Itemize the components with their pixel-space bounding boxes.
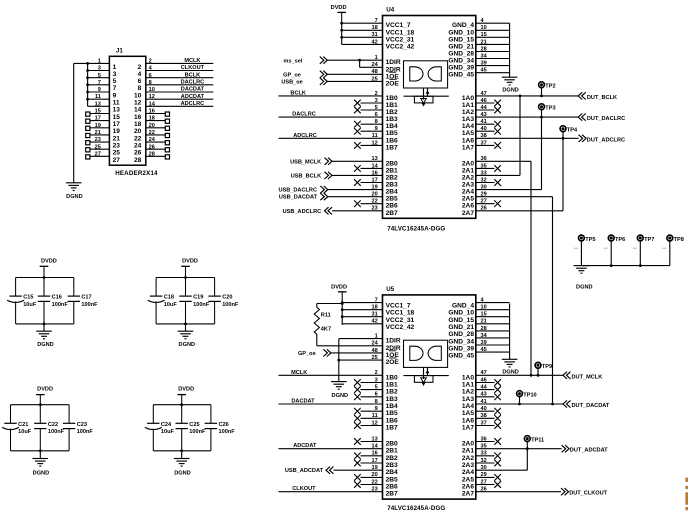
wire U4 2A4 branch up to DUT_DACLRC: [476, 110, 543, 191]
svg-text:27: 27: [113, 157, 121, 164]
no-connect U5 2A2 pin 33: [476, 451, 501, 459]
svg-text:37: 37: [481, 420, 487, 426]
svg-text:2A4: 2A4: [462, 469, 474, 476]
svg-text:GND_10: GND_10: [448, 29, 474, 36]
refdes C21: [18, 422, 28, 428]
value 4K7 (R11): [321, 327, 331, 333]
no-connect U4 1A4 pin 41: [476, 119, 501, 127]
no-connect U4 1A1 pin 46: [476, 98, 501, 106]
svg-text:7: 7: [375, 298, 378, 304]
J1 inside pin numbers 1-28: [113, 64, 142, 164]
net label ADCLRC: [181, 101, 205, 107]
svg-text:19: 19: [371, 185, 377, 191]
power DVDD at C15 bank: [40, 266, 49, 277]
wire DUT_DACLRC from U4 1A3: [476, 112, 578, 118]
svg-text:12: 12: [371, 140, 377, 146]
svg-text:10: 10: [481, 305, 487, 311]
svg-text:DUT_DACDAT: DUT_DACDAT: [572, 403, 610, 409]
svg-text:1: 1: [375, 55, 378, 61]
testpoint TP2: [539, 82, 545, 98]
wire gnd stem C24 bank: [181, 451, 183, 459]
svg-text:CLKOUT: CLKOUT: [292, 486, 316, 492]
svg-text:C17: C17: [81, 295, 91, 301]
svg-text:9: 9: [375, 406, 378, 412]
svg-text:1B1: 1B1: [386, 102, 398, 109]
wire bottom rail C18 bank: [156, 323, 215, 325]
wire USB_BCLK to U4 2B2: [332, 170, 383, 176]
svg-text:42: 42: [371, 39, 377, 45]
svg-text:1B0: 1B0: [386, 374, 398, 381]
svg-text:100nF: 100nF: [189, 429, 206, 435]
svg-text:1DIR: 1DIR: [386, 338, 401, 345]
no-connect U5 1A2 pin 44: [476, 385, 501, 393]
svg-text:34: 34: [481, 53, 488, 59]
wire gnd stem C18 bank: [185, 324, 187, 331]
no-connect U4 1A5 pin 40: [476, 126, 501, 134]
svg-text:1A1: 1A1: [462, 382, 474, 389]
svg-text:C20: C20: [222, 295, 232, 301]
wire U4 2A5 USB DACDAT branch down: [476, 192, 553, 404]
svg-text:2A4: 2A4: [462, 189, 474, 196]
ground DGND (C15 bank): [36, 331, 52, 339]
svg-text:2A2: 2A2: [462, 174, 474, 181]
svg-text:1B4: 1B4: [386, 123, 398, 130]
net label DACDAT (U5): [291, 399, 315, 405]
label DGND (TP rail): [576, 285, 592, 291]
svg-text:21: 21: [481, 39, 487, 45]
label TP11: [531, 438, 544, 444]
no-connect U5 2B6 pin 22: [354, 479, 382, 487]
svg-text:VCC2_42: VCC2_42: [386, 43, 415, 50]
IC U4 body: [383, 16, 476, 219]
svg-text:8: 8: [375, 399, 378, 405]
wires U4 VCC pins to DVDD rail: [340, 18, 382, 45]
svg-text:38: 38: [481, 133, 487, 139]
svg-text:100nF: 100nF: [77, 429, 94, 435]
svg-text:1A5: 1A5: [462, 410, 474, 417]
svg-text:14: 14: [371, 163, 378, 169]
svg-text:43: 43: [481, 392, 487, 398]
svg-text:TP7: TP7: [644, 237, 654, 243]
svg-text:1A6: 1A6: [462, 417, 474, 424]
svg-text:VCC1_18: VCC1_18: [386, 29, 415, 36]
svg-text:DACDAT: DACDAT: [291, 399, 315, 405]
svg-text:2A7: 2A7: [462, 491, 474, 498]
svg-text:32: 32: [481, 177, 487, 183]
wire GP_oe to U4 1OE: [327, 69, 382, 75]
svg-text:74LVC16245A-DGG: 74LVC16245A-DGG: [387, 226, 445, 233]
svg-text:2OE: 2OE: [386, 80, 400, 87]
ground DGND (C24 bank): [174, 459, 190, 467]
net label CLKOUT (U5): [292, 486, 316, 492]
svg-text:DGND: DGND: [33, 470, 49, 476]
svg-text:2A5: 2A5: [462, 196, 474, 203]
svg-text:TP10: TP10: [523, 393, 536, 399]
svg-text:16: 16: [371, 170, 377, 176]
label DGND at J1: [66, 194, 82, 200]
no-connect U5 1A3 pin 43: [476, 392, 501, 400]
off-page arrow USB_DACDAT: [320, 193, 328, 200]
svg-text:74LVC16245A-DGG: 74LVC16245A-DGG: [387, 505, 445, 512]
svg-text:DUT_CLKOUT: DUT_CLKOUT: [569, 491, 607, 497]
refdes C18: [164, 295, 174, 301]
net label DUT_CLKOUT: [569, 491, 607, 497]
svg-text:GND_21: GND_21: [448, 43, 474, 50]
no-connect U5 1B1 pin 3: [354, 377, 382, 385]
refdes C24: [161, 422, 172, 428]
no-connect U5 1A5 pin 40: [476, 406, 501, 414]
wire U4 2A2 branch up to DUT_BCLK: [476, 95, 522, 177]
svg-text:MCLK: MCLK: [291, 370, 307, 376]
svg-text:13: 13: [371, 156, 377, 162]
svg-text:1A3: 1A3: [462, 116, 474, 123]
J1 right pin numbers: [149, 59, 156, 158]
svg-text:28: 28: [134, 157, 142, 164]
no-connect U5 1A1 pin 46: [476, 377, 501, 385]
svg-text:DACLRC: DACLRC: [181, 79, 205, 85]
svg-text:24: 24: [371, 341, 378, 347]
off-page arrow DUT_CLKOUT: [561, 488, 569, 495]
svg-text:10uF: 10uF: [161, 429, 175, 435]
svg-text:3: 3: [375, 377, 378, 383]
svg-text:1B5: 1B5: [386, 130, 398, 137]
U4 pin names: [386, 22, 475, 217]
no-connect U4 1A7 pin 37: [476, 140, 501, 148]
wire J1 net DACLRC: [146, 84, 214, 86]
value 100nF (C16): [52, 302, 69, 308]
value 74LVC16245A-DGG (U5): [387, 505, 445, 512]
svg-text:32: 32: [481, 458, 487, 464]
net label DACLRC: [181, 79, 205, 85]
svg-text:USB_BCLK: USB_BCLK: [291, 173, 321, 179]
svg-text:20: 20: [134, 128, 142, 135]
svg-text:C15: C15: [23, 295, 33, 301]
no-connect U5 2A3 pin 32: [476, 458, 501, 466]
svg-text:22: 22: [371, 479, 377, 485]
svg-text:2A2: 2A2: [462, 455, 474, 462]
svg-text:GND_10: GND_10: [448, 310, 474, 317]
capacitor C24: [145, 405, 162, 451]
wire net DACDAT to U5 1B4: [279, 399, 383, 405]
svg-text:28: 28: [481, 46, 487, 52]
svg-text:15: 15: [481, 32, 487, 38]
svg-text:GP_oe: GP_oe: [298, 351, 316, 357]
svg-text:2: 2: [138, 64, 142, 71]
wire TP5-TP8 ground rail: [581, 264, 669, 267]
testpoint TP11: [524, 436, 530, 450]
svg-text:14: 14: [371, 444, 378, 450]
off-page arrow DUT_BCLK: [578, 92, 586, 99]
svg-text:DGND: DGND: [502, 87, 518, 93]
refdes C26: [219, 422, 229, 428]
wire USB_DACDAT to U4 2B5: [328, 192, 383, 198]
svg-text:9: 9: [113, 92, 117, 99]
svg-text:11: 11: [372, 413, 378, 419]
svg-text:28: 28: [481, 326, 487, 332]
off-page arrow DUT_ADCLRC: [579, 135, 587, 142]
no-connect U5 2A5 pin 29: [476, 472, 501, 481]
connector J1 body: [109, 56, 145, 165]
svg-text:6: 6: [375, 392, 378, 398]
svg-text:TP4: TP4: [567, 128, 578, 134]
value 100nF (C23): [77, 429, 94, 435]
svg-text:2B0: 2B0: [386, 160, 398, 167]
refdes C15: [23, 295, 33, 301]
wire bottom rail C24 bank: [153, 450, 211, 452]
label DVDD (U5): [331, 284, 347, 290]
svg-text:1A1: 1A1: [462, 102, 474, 109]
svg-text:DGND: DGND: [179, 342, 195, 348]
svg-text:1B6: 1B6: [386, 417, 398, 424]
svg-text:USB_DACDAT: USB_DACDAT: [279, 195, 318, 201]
svg-text:6: 6: [138, 78, 142, 85]
refdes C17: [81, 295, 91, 301]
svg-text:15: 15: [481, 312, 487, 318]
wire net ADCLRC to U4 1B6: [279, 133, 383, 139]
svg-text:17: 17: [371, 458, 377, 464]
off-page arrow USB_MCLK: [325, 158, 333, 165]
svg-text:C21: C21: [18, 422, 28, 428]
svg-text:DGND: DGND: [332, 393, 348, 399]
no-connect U4 1B1 pin 3: [354, 98, 382, 106]
svg-text:C23: C23: [77, 422, 87, 428]
svg-text:VCC1_18: VCC1_18: [386, 310, 415, 317]
power DVDD at U4: [337, 12, 346, 23]
svg-text:2B2: 2B2: [386, 455, 398, 462]
no-connect U4 2B3 pin 17: [354, 177, 382, 185]
svg-text:45: 45: [481, 347, 487, 353]
svg-text:16: 16: [134, 114, 142, 121]
svg-text:46: 46: [481, 377, 487, 383]
svg-text:13: 13: [113, 107, 121, 114]
junction dots C24 bank: [180, 403, 183, 452]
svg-text:2B3: 2B3: [386, 462, 398, 469]
svg-text:VCC1_7: VCC1_7: [386, 303, 411, 310]
wire J1 net BCLK: [146, 77, 214, 79]
ground DGND (C21 bank): [33, 459, 49, 467]
wire R11 top to DVDD rail: [317, 302, 344, 305]
svg-text:VCC2_31: VCC2_31: [386, 36, 415, 43]
svg-text:2A3: 2A3: [462, 462, 474, 469]
svg-text:48: 48: [371, 69, 377, 75]
value 100nF (C26): [219, 429, 236, 435]
capacitor C21: [2, 405, 19, 451]
wire J1 net MCLK: [146, 62, 214, 64]
svg-text:USB_DACLRC: USB_DACLRC: [278, 188, 317, 194]
value 100nF (C22): [48, 429, 65, 435]
svg-text:DVDD: DVDD: [37, 386, 53, 392]
svg-text:44: 44: [481, 385, 488, 391]
testpoint TP4: [560, 126, 566, 132]
svg-text:18: 18: [371, 305, 377, 311]
svg-text:GND_45: GND_45: [448, 72, 474, 79]
svg-text:100nF: 100nF: [193, 302, 210, 308]
svg-text:TP9: TP9: [542, 364, 552, 370]
svg-text:1A6: 1A6: [462, 137, 474, 144]
net label USB_oe: [281, 80, 302, 86]
no-connect U5 1B5 pin 9: [354, 406, 382, 414]
svg-text:12: 12: [134, 100, 142, 107]
off-page arrow USB_oe: [320, 78, 328, 85]
wire net DACLRC to U4 1B3: [279, 112, 383, 118]
no-connect U5 2B2 pin 16: [354, 451, 382, 459]
svg-text:24: 24: [134, 143, 142, 150]
svg-text:30: 30: [481, 185, 487, 191]
capacitor C19: [179, 278, 191, 324]
J1 pins 16-28 stub squares: [146, 112, 170, 159]
U5 internal transceiver symbol: [404, 340, 449, 386]
svg-text:GND_34: GND_34: [448, 338, 474, 345]
svg-text:C19: C19: [193, 295, 203, 301]
net label CLKOUT: [181, 65, 205, 71]
svg-text:U5: U5: [386, 286, 394, 293]
wire USB_ADCLRC to U4 2B7: [332, 206, 383, 212]
value 100nF (C20): [222, 302, 239, 308]
svg-text:5: 5: [375, 385, 378, 391]
label DVDD (C15 bank): [41, 259, 57, 265]
ground DGND (C18 bank): [178, 331, 194, 339]
svg-text:DGND: DGND: [37, 342, 53, 348]
svg-text:29: 29: [481, 192, 487, 198]
svg-text:DVDD: DVDD: [331, 5, 347, 11]
svg-text:ADCLRC: ADCLRC: [181, 101, 205, 107]
svg-text:ADCLRC: ADCLRC: [293, 133, 317, 139]
svg-text:2A0: 2A0: [462, 441, 474, 448]
svg-text:17: 17: [371, 177, 377, 183]
svg-text:21: 21: [481, 319, 487, 325]
svg-text:47: 47: [481, 91, 487, 97]
svg-text:35: 35: [481, 444, 487, 450]
wire net ADCDAT to U5 2B1: [279, 444, 383, 450]
value 10uF (C21): [18, 429, 32, 435]
no-connect U5 1A6 pin 38: [476, 413, 501, 421]
capacitor C26: [205, 405, 217, 451]
ground DGND (U4): [502, 77, 518, 85]
label DGND (U4): [502, 87, 518, 93]
wire J1 ground drop: [73, 63, 75, 182]
resistor R11: [314, 304, 319, 346]
refdes C19: [193, 295, 203, 301]
label DGND (U5 DIR): [332, 393, 348, 399]
svg-text:1DIR: 1DIR: [386, 59, 401, 66]
label DGND (C21 bank): [33, 470, 49, 476]
svg-text:8: 8: [138, 85, 142, 92]
off-page arrow GP_oe (U4): [320, 71, 328, 78]
svg-text:100nF: 100nF: [81, 302, 98, 308]
testpoint TP9: [535, 362, 541, 376]
svg-text:2A7: 2A7: [462, 210, 474, 217]
wire USB_DACLRC to U4 2B4: [328, 185, 383, 191]
no-connect U4 1B7 pin 12: [354, 140, 382, 148]
wire USB_MCLK to U4 2B0: [332, 156, 383, 162]
wire U5 2OE to ground: [337, 355, 382, 362]
refdes C23: [77, 422, 87, 428]
no-connect U4 2B1 pin 14: [354, 163, 382, 171]
svg-text:GND_39: GND_39: [448, 65, 474, 72]
IC U5 body: [383, 295, 476, 499]
svg-text:100nF: 100nF: [222, 302, 239, 308]
label DGND (C18 bank): [179, 342, 195, 348]
no-connect U5 2B0 pin 13: [354, 436, 382, 444]
value 10uF (C24): [161, 429, 175, 435]
svg-text:BCLK: BCLK: [185, 72, 201, 78]
svg-text:25: 25: [371, 76, 377, 82]
wire DUT_BCLK from U4 1A0: [476, 91, 578, 97]
svg-text:DVDD: DVDD: [178, 386, 194, 392]
svg-text:2B2: 2B2: [386, 174, 398, 181]
svg-text:6: 6: [375, 112, 378, 118]
off-page arrow USB_DACLRC: [320, 186, 328, 193]
label TP9: [542, 364, 552, 370]
label TP3: [545, 106, 555, 112]
svg-text:19: 19: [371, 465, 377, 471]
wire J1 pin1 to ground bus: [74, 62, 110, 64]
svg-text:13: 13: [371, 436, 377, 442]
junction dots C21 bank: [39, 403, 42, 452]
svg-text:1B5: 1B5: [386, 410, 398, 417]
svg-text:DUT_MCLK: DUT_MCLK: [572, 374, 603, 380]
svg-text:14: 14: [134, 107, 142, 114]
no-connect U5 2A0 pin 36: [476, 436, 501, 444]
ground DGND at J1: [66, 183, 82, 191]
svg-text:41: 41: [481, 399, 487, 405]
svg-text:DVDD: DVDD: [182, 259, 198, 265]
svg-text:34: 34: [481, 333, 488, 339]
wire top rail C21 bank: [11, 404, 70, 406]
label DVDD (U4): [331, 5, 347, 11]
net label MCLK (U5): [291, 370, 307, 376]
wire U4 2A0 USB MCLK branch down: [476, 156, 531, 375]
wires J1 pins 3-13 to bus: [88, 71, 110, 107]
svg-text:1A4: 1A4: [462, 403, 474, 410]
svg-text:2B4: 2B4: [386, 189, 398, 196]
svg-text:41: 41: [481, 119, 487, 125]
svg-text:10uF: 10uF: [23, 302, 37, 308]
svg-text:ADCDAT: ADCDAT: [293, 443, 317, 449]
svg-text:36: 36: [481, 156, 487, 162]
svg-text:44: 44: [481, 105, 488, 111]
net label DUT_MCLK: [572, 374, 603, 380]
svg-text:2B6: 2B6: [386, 484, 398, 491]
net label BCLK: [185, 72, 201, 78]
label TP10: [523, 393, 536, 399]
svg-text:3: 3: [375, 98, 378, 104]
svg-text:VCC2_42: VCC2_42: [386, 324, 415, 331]
svg-text:2A3: 2A3: [462, 182, 474, 189]
svg-text:GP_oe: GP_oe: [283, 73, 301, 79]
capacitor C23: [63, 405, 75, 451]
testpoint TP3: [539, 104, 545, 110]
net label USB_DACDAT: [279, 195, 318, 201]
svg-text:TP3: TP3: [545, 106, 555, 112]
svg-text:25: 25: [113, 150, 121, 157]
svg-text:31: 31: [371, 312, 377, 318]
wires U5 GND pins to rail: [476, 298, 510, 360]
svg-text:2A1: 2A1: [462, 167, 474, 174]
svg-text:27: 27: [481, 479, 487, 485]
svg-text:20: 20: [371, 472, 377, 478]
refdes U5: [386, 286, 394, 293]
no-connect U4 1B4 pin 8: [354, 119, 382, 127]
svg-text:2B7: 2B7: [386, 210, 398, 217]
wire net CLKOUT to U5 2B7: [279, 487, 383, 493]
wire top rail C24 bank: [153, 404, 211, 406]
svg-text:40: 40: [481, 406, 487, 412]
svg-text:10uF: 10uF: [164, 302, 178, 308]
refdes C25: [189, 422, 199, 428]
svg-text:C18: C18: [164, 295, 174, 301]
svg-text:VCC2_31: VCC2_31: [386, 317, 415, 324]
